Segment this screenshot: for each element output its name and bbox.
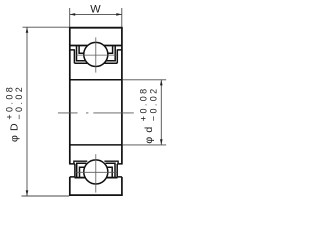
cage outer arm (bottom-left)	[74, 161, 87, 164]
phiD dimension line	[26, 27, 28, 196]
phiD label (rotated)	[4, 85, 24, 142]
ball (bottom)	[84, 160, 108, 184]
shield (top-right), attached to right face	[105, 50, 122, 63]
W dimension extension line right	[121, 8, 123, 27]
cage middle lip (bottom-right)	[105, 163, 115, 177]
phiD arrow bottom	[26, 190, 29, 196]
shield (top-left), attached to left face	[70, 50, 87, 63]
ball center line horizontal (top)	[76, 54, 117, 56]
bearing left side face (lower segment)	[69, 177, 71, 196]
svg-text:d: d	[143, 127, 155, 133]
svg-text:W: W	[90, 3, 101, 15]
phid label (rotated)	[139, 86, 159, 143]
W arrow right	[116, 13, 122, 16]
svg-text:φ: φ	[9, 135, 21, 142]
cage inner lip (top-left)	[79, 46, 84, 54]
phid extension line bottom	[123, 144, 167, 146]
phiD extension line top	[23, 26, 70, 28]
bore surface line (top, inner ring bore)	[69, 79, 122, 81]
bearing axis center line (dash-dot)	[58, 112, 134, 114]
svg-text:+0.08: +0.08	[4, 85, 14, 120]
ball center line vertical (top)	[95, 37, 97, 72]
outer ring inner surface, top-right	[104, 45, 123, 47]
W dimension line	[70, 13, 122, 15]
outer ring inner surface, bottom-right	[106, 177, 117, 179]
outer ring inner surface, top-left	[69, 45, 88, 47]
phid extension line top	[123, 79, 167, 81]
cage middle lip (bottom-left)	[77, 163, 87, 177]
cage inner lip (bottom-right)	[107, 167, 113, 177]
svg-text:D: D	[9, 123, 21, 131]
svg-text:−0.02: −0.02	[14, 85, 24, 120]
side face notch (bottom-right)	[117, 164, 122, 177]
ball center line horizontal (bottom)	[76, 171, 117, 173]
bearing outer ring bottom edge (OD surface, bottom)	[69, 194, 123, 196]
bearing right side face (upper segment)	[121, 27, 123, 165]
ball (top)	[84, 42, 108, 66]
phid arrow top	[160, 80, 163, 86]
phid dimension line	[160, 80, 162, 145]
outer ring inner surface, bottom-left	[75, 177, 86, 179]
svg-text:+0.08: +0.08	[139, 86, 149, 121]
phid arrow bottom	[160, 139, 163, 145]
cage middle lip (top-left)	[77, 46, 86, 61]
bearing outer ring top edge (OD surface, top)	[69, 27, 123, 29]
ball center line vertical (bottom)	[95, 154, 97, 192]
svg-text:φ: φ	[143, 137, 155, 144]
cage middle lip (top-right)	[106, 46, 115, 61]
bearing right side face (lower segment)	[121, 177, 123, 196]
phiD extension line bottom	[22, 195, 70, 197]
bore surface line (bottom, inner ring bore)	[69, 144, 122, 146]
W dimension extension line left	[69, 8, 71, 27]
cage inner lip (top-right)	[108, 46, 113, 54]
svg-text:−0.02: −0.02	[148, 86, 158, 121]
cage outer arm (bottom-right)	[104, 161, 118, 164]
side face notch (bottom-left)	[70, 164, 75, 177]
W arrow left	[70, 13, 76, 16]
cage inner lip (bottom-left)	[80, 167, 86, 177]
phiD arrow top	[26, 27, 29, 33]
bearing left side face (upper segment)	[69, 27, 71, 165]
